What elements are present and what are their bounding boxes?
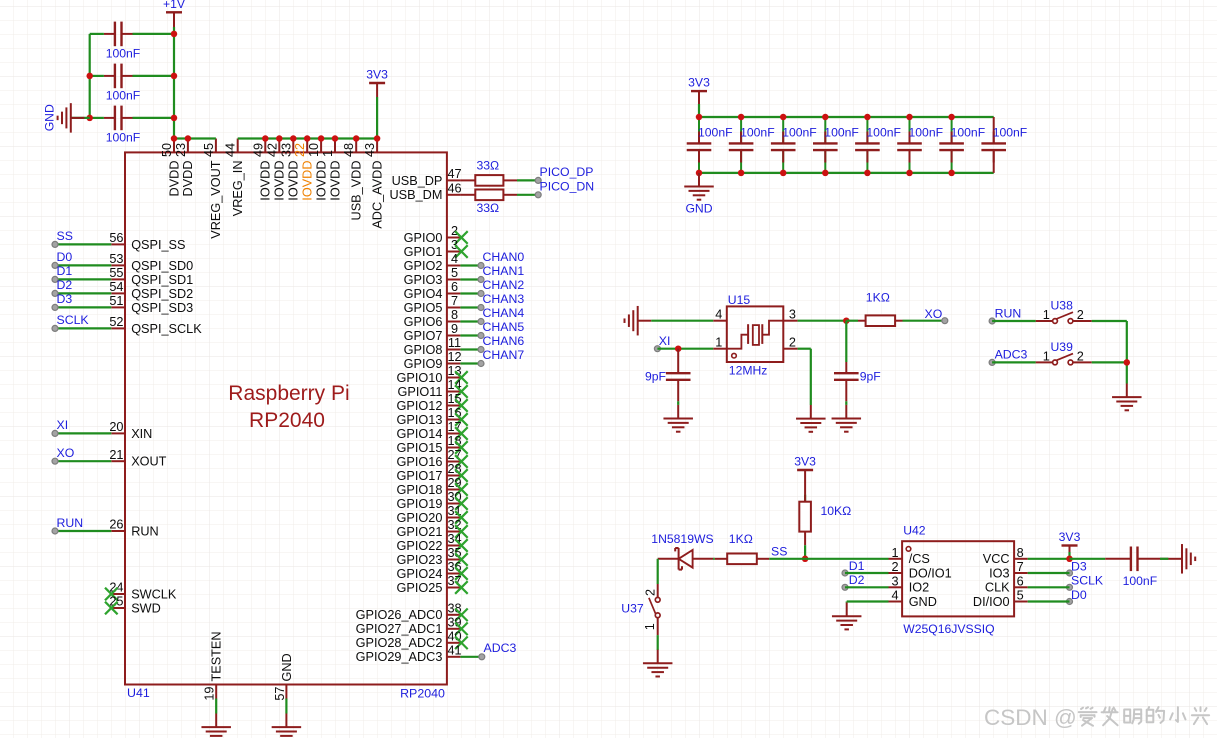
- svg-text:QSPI_SD1: QSPI_SD1: [131, 273, 193, 287]
- ground GND (top-left): [58, 103, 85, 132]
- svg-text:1KΩ: 1KΩ: [729, 532, 753, 546]
- capacitor C2 100nF (decoupling +1V): [104, 64, 133, 89]
- wire U39 pin2 to ground rail: [1092, 361, 1127, 363]
- U41 pin 52 QSPI_SCLK: [109, 315, 202, 336]
- wire CHAN4 from pin 8: [460, 320, 481, 322]
- no-connect on pin 31: [455, 511, 468, 524]
- ground right of 100nF (sideways): [1168, 544, 1195, 574]
- wire SCLK to U42 pin6: [1028, 586, 1070, 588]
- U41 pin 23 DVDD (top): [174, 139, 195, 197]
- svg-text:IOVDD: IOVDD: [273, 161, 287, 201]
- svg-text:D3: D3: [57, 292, 73, 306]
- svg-text:9pF: 9pF: [860, 370, 881, 384]
- U42 pin 5 DI/IO0: [973, 589, 1028, 609]
- svg-text:RUN: RUN: [57, 516, 84, 530]
- svg-text:GPIO25: GPIO25: [397, 581, 443, 595]
- U15 pin 1: [713, 336, 727, 350]
- svg-text:CSDN @: CSDN @: [984, 705, 1077, 730]
- svg-text:49: 49: [251, 143, 265, 157]
- junction cap 4 top: [822, 114, 829, 121]
- svg-text:GND: GND: [43, 104, 57, 131]
- wire SS node to U42 pin1: [805, 558, 888, 560]
- wire 1K to XO flag: [903, 320, 942, 322]
- U41 pin 42 IOVDD (top): [265, 139, 286, 201]
- svg-text:48: 48: [342, 143, 356, 157]
- svg-text:9pF: 9pF: [645, 370, 666, 384]
- net flag D0: [52, 250, 72, 268]
- wire 3V3 to cap bank top rail: [698, 104, 700, 117]
- U41 pin 18 GPIO15: [397, 434, 462, 455]
- junction top bus x=187.9: [185, 135, 192, 142]
- svg-text:USB_DM: USB_DM: [390, 188, 443, 202]
- svg-text:33Ω: 33Ω: [477, 201, 500, 215]
- U41 pin 6 GPIO4: [404, 280, 461, 301]
- svg-text:22: 22: [293, 143, 307, 157]
- U42 pin 1 /CS: [889, 546, 930, 566]
- svg-text:D2: D2: [57, 278, 73, 292]
- junction top bus x=279.3: [276, 135, 283, 142]
- svg-text:11: 11: [448, 336, 461, 350]
- svg-text:57: 57: [273, 687, 287, 701]
- svg-text:3V3: 3V3: [366, 68, 388, 82]
- svg-text:6: 6: [451, 280, 458, 294]
- svg-text:GPIO0: GPIO0: [404, 231, 443, 245]
- svg-text:GPIO14: GPIO14: [397, 427, 443, 441]
- ground below 9pF (XI): [663, 405, 693, 432]
- capacitor 9pF (XO): [834, 362, 859, 401]
- switch U39: [1036, 354, 1092, 365]
- svg-text:SWCLK: SWCLK: [131, 587, 177, 601]
- wire RUN to U41 pin 26: [55, 530, 111, 532]
- ground below U37: [643, 650, 673, 677]
- svg-text:CHAN1: CHAN1: [483, 264, 525, 278]
- U41 pin 32 GPIO21: [397, 518, 462, 539]
- svg-text:U42: U42: [903, 523, 926, 537]
- capacitor C1 100nF (decoupling +1V): [104, 22, 133, 47]
- wire to PICO_DP: [517, 179, 536, 181]
- junction top bus x=174.0: [171, 135, 178, 142]
- net flag D2 (U42 pin3): [842, 573, 865, 590]
- svg-text:100nF: 100nF: [698, 126, 733, 140]
- svg-text:6: 6: [1017, 574, 1024, 588]
- no-connect on pin 37: [455, 581, 468, 594]
- svg-text:55: 55: [109, 266, 123, 280]
- diode D 1N5819WS: [658, 548, 713, 570]
- svg-text:CHAN0: CHAN0: [483, 250, 525, 264]
- wire 3V3 to 10K: [804, 495, 806, 502]
- svg-text:GPIO4: GPIO4: [404, 287, 443, 301]
- no-connect on pin 25: [105, 602, 118, 615]
- junction right rail row2: [171, 73, 178, 80]
- junction cap 7 bottom: [948, 170, 955, 177]
- svg-text:SS: SS: [57, 229, 73, 243]
- wire VCC node to cap: [1070, 558, 1106, 560]
- svg-text:9: 9: [451, 322, 458, 336]
- wire cap bank left rail: [89, 34, 91, 118]
- U41 pin 8 GPIO6: [404, 308, 461, 329]
- junction cap 7 top: [948, 114, 955, 121]
- svg-text:100nF: 100nF: [866, 126, 901, 140]
- ground below pin 57: [272, 714, 302, 738]
- svg-text:SS: SS: [771, 545, 787, 559]
- net flag CHAN7: [478, 348, 524, 367]
- U41 pin 2 GPIO0: [404, 224, 461, 245]
- svg-text:8: 8: [1017, 546, 1024, 560]
- no-connect on pin 3: [455, 245, 468, 258]
- svg-text:GPIO7: GPIO7: [404, 329, 443, 343]
- net flag PICO_DN: [535, 180, 594, 198]
- net flag D2: [52, 278, 72, 296]
- junction cap 5 bottom: [864, 170, 871, 177]
- svg-text:QSPI_SD2: QSPI_SD2: [131, 287, 193, 301]
- resistor 33R USB_DN: [460, 190, 517, 201]
- svg-text:XI: XI: [57, 418, 69, 432]
- wire to PICO_DN: [517, 194, 536, 196]
- svg-text:GPIO26_ADC0: GPIO26_ADC0: [356, 608, 443, 622]
- svg-text:CLK: CLK: [985, 581, 1010, 595]
- svg-text:4: 4: [715, 308, 722, 322]
- U41 pin 1 IOVDD (top): [321, 139, 342, 201]
- wire D0 to U41 pin 53: [55, 264, 111, 266]
- net flag CHAN5: [478, 320, 524, 339]
- junction cap 1 top: [696, 114, 703, 121]
- capacitor 100nF #4 (3V3 decoupling): [813, 117, 838, 173]
- watermark CJK glyph 6: [1192, 707, 1209, 724]
- wire XI to U41 pin 20: [55, 432, 111, 434]
- wire cap bank bottom rail: [699, 172, 994, 174]
- wire U38 pin2 to ground rail: [1092, 320, 1127, 322]
- svg-text:12: 12: [447, 350, 461, 364]
- junction cap 6 bottom: [906, 170, 913, 177]
- svg-text:IO3: IO3: [989, 566, 1009, 580]
- svg-text:D1: D1: [57, 264, 73, 278]
- svg-text:3V3: 3V3: [794, 455, 816, 469]
- U41 pin 29 GPIO18: [397, 476, 462, 497]
- junction top bus x=293.3: [290, 135, 297, 142]
- junction left rail row2: [86, 73, 93, 80]
- wire pin 57 to ground: [285, 699, 287, 714]
- wire cap C2 right: [133, 75, 175, 77]
- net flag CHAN6: [478, 334, 524, 353]
- no-connect on pin 13: [455, 371, 468, 384]
- wire top bus segment 2 (pin 44 to 3V3): [238, 137, 377, 139]
- junction top bus x=356.2: [353, 135, 360, 142]
- svg-text:IOVDD: IOVDD: [287, 161, 301, 201]
- svg-text:GPIO28_ADC2: GPIO28_ADC2: [356, 636, 443, 650]
- wire CHAN0 from pin 4: [460, 264, 481, 266]
- svg-text:GPIO12: GPIO12: [397, 399, 443, 413]
- wire pin 19 to ground: [215, 699, 217, 714]
- svg-text:ADC3: ADC3: [995, 348, 1028, 362]
- wire D1 to U42 pin2: [845, 572, 889, 574]
- net flag RUN: [52, 516, 83, 534]
- wire D1 to U41 pin 55: [55, 278, 111, 280]
- svg-text:W25Q16JVSSIQ: W25Q16JVSSIQ: [903, 622, 994, 636]
- wire CHAN2 from pin 6: [460, 292, 481, 294]
- svg-text:2: 2: [789, 336, 796, 350]
- svg-text:10: 10: [307, 143, 321, 157]
- svg-text:100nF: 100nF: [106, 88, 141, 102]
- wire top bus segment 1 (+1V rail to pin 45): [174, 137, 216, 139]
- U41 pin 46 USB_DM: [390, 182, 462, 203]
- svg-text:1: 1: [715, 336, 722, 350]
- wire GND to cap bank: [71, 117, 90, 119]
- svg-text:GPIO22: GPIO22: [397, 539, 443, 553]
- svg-text:VREG_VOUT: VREG_VOUT: [209, 160, 223, 239]
- U41 pin 49 IOVDD (top): [251, 139, 272, 201]
- U41 pin 39 GPIO27_ADC1: [356, 616, 462, 637]
- svg-text:GPIO13: GPIO13: [397, 413, 443, 427]
- U41 pin 9 GPIO7: [404, 322, 461, 343]
- junction SS node: [802, 556, 809, 563]
- svg-text:RUN: RUN: [995, 306, 1022, 320]
- wire cap C1 left: [90, 33, 104, 35]
- svg-text:GPIO18: GPIO18: [397, 483, 443, 497]
- no-connect on pin 2: [455, 231, 468, 244]
- wire U37 pin1 to ground: [657, 635, 659, 650]
- wire CHAN3 from pin 7: [460, 306, 481, 308]
- no-connect on pin 34: [455, 539, 468, 552]
- wire U15 pin2 down: [810, 349, 812, 405]
- svg-text:100nF: 100nF: [782, 126, 817, 140]
- svg-text:GPIO15: GPIO15: [397, 441, 443, 455]
- watermark CJK glyph 3: [1124, 710, 1141, 724]
- wire +1V to cap bank: [173, 27, 175, 34]
- svg-text:2: 2: [892, 560, 899, 574]
- U42 pin 2 DO/IO1: [889, 560, 952, 580]
- no-connect on pin 28: [455, 469, 468, 482]
- U42 pin 3 IO2: [889, 574, 930, 594]
- svg-text:GPIO2: GPIO2: [404, 259, 443, 273]
- junction XI node: [675, 345, 682, 352]
- wire CHAN1 from pin 5: [460, 278, 481, 280]
- U41 pin 7 GPIO5: [404, 294, 461, 315]
- junction cap 5 top: [864, 114, 871, 121]
- svg-text:ADC_AVDD: ADC_AVDD: [370, 161, 384, 229]
- net flag XO (crystal): [925, 307, 948, 324]
- svg-text:5: 5: [1017, 589, 1024, 603]
- svg-text:IOVDD: IOVDD: [301, 161, 315, 201]
- U41 pin 45 VREG_VOUT (top): [202, 139, 223, 239]
- U41 pin 24 SWCLK: [109, 581, 176, 602]
- svg-text:SCLK: SCLK: [1071, 574, 1104, 588]
- svg-text:10KΩ: 10KΩ: [821, 504, 852, 518]
- svg-text:2: 2: [1077, 308, 1084, 322]
- svg-text:U37: U37: [621, 601, 644, 615]
- switch U38: [1036, 312, 1092, 323]
- svg-text:3V3: 3V3: [1059, 530, 1081, 544]
- wire 10K to SS node: [804, 545, 806, 559]
- U41 pin 28 GPIO17: [397, 462, 462, 483]
- U41 pin 51 QSPI_SD3: [109, 294, 193, 315]
- svg-text:PICO_DP: PICO_DP: [540, 165, 594, 179]
- U41 pin 56 QSPI_SS: [109, 231, 185, 252]
- svg-text:GPIO23: GPIO23: [397, 553, 443, 567]
- svg-text:100nF: 100nF: [993, 126, 1028, 140]
- ground at U15 pin 4: [625, 306, 652, 336]
- U41 pin 4 GPIO2: [404, 252, 461, 273]
- U41 pin 27 GPIO16: [397, 448, 462, 469]
- net flag PICO_DP: [535, 165, 593, 183]
- svg-text:D1: D1: [849, 559, 865, 573]
- U41 pin 11 GPIO8: [404, 336, 461, 357]
- power flag +1V: [166, 12, 182, 27]
- svg-text:DO/IO1: DO/IO1: [909, 566, 952, 580]
- svg-text:GPIO8: GPIO8: [404, 343, 443, 357]
- svg-text:GPIO3: GPIO3: [404, 273, 443, 287]
- wire U15 pin3 to XO node: [798, 320, 847, 322]
- junction top bus x=321.1: [318, 135, 325, 142]
- wire cap C2 left: [90, 75, 104, 77]
- ground below 9pF (XO): [832, 405, 862, 432]
- junction cap 4 bottom: [822, 170, 829, 177]
- capacitor 100nF #5 (3V3 decoupling): [855, 117, 880, 173]
- ground at U15 pin 2: [796, 405, 826, 432]
- wire D3 to U42 pin7: [1028, 572, 1070, 574]
- net flag D0 (U42 pin5): [1067, 588, 1087, 605]
- U41 pin 33 IOVDD (top): [279, 139, 300, 201]
- no-connect on pin 15: [455, 399, 468, 412]
- junction right rail row3: [171, 115, 178, 122]
- svg-text:3: 3: [451, 238, 458, 252]
- ground below cap bank: [684, 173, 714, 200]
- net flag ADC3 (to U39): [989, 348, 1027, 366]
- capacitor C3 100nF (decoupling +1V): [104, 106, 133, 131]
- U41 pin 17 GPIO14: [397, 420, 462, 441]
- wire U42 pin8 to VCC node: [1028, 558, 1070, 560]
- ground below pin 19: [201, 714, 231, 738]
- no-connect on pin 17: [455, 427, 468, 440]
- svg-text:GPIO27_ADC1: GPIO27_ADC1: [356, 622, 443, 636]
- wire SCLK to U41 pin 52: [55, 327, 111, 329]
- junction U39 pin2 / ground rail: [1124, 359, 1131, 366]
- svg-text:GPIO6: GPIO6: [404, 315, 443, 329]
- svg-text:TESTEN: TESTEN: [210, 631, 224, 681]
- svg-text:1: 1: [643, 623, 657, 630]
- wire ADC3 to U39: [992, 361, 1036, 363]
- wire RUN to U38: [992, 320, 1036, 322]
- net flag D3: [52, 292, 72, 310]
- U41 pin 54 QSPI_SD2: [109, 280, 193, 301]
- no-connect on pin 29: [455, 483, 468, 496]
- svg-text:GPIO20: GPIO20: [397, 511, 443, 525]
- svg-text:CHAN6: CHAN6: [483, 334, 525, 348]
- wire XO to U41 pin 21: [55, 460, 111, 462]
- svg-text:1: 1: [892, 546, 899, 560]
- net flag CHAN4: [478, 306, 524, 325]
- wire 9pF XO to ground: [845, 401, 847, 405]
- crystal oscillator U15 body: [727, 306, 784, 362]
- svg-text:100nF: 100nF: [909, 126, 944, 140]
- U42 pin 6 CLK: [985, 574, 1028, 594]
- junction cap 3 top: [780, 114, 787, 121]
- ground below switch rail: [1112, 384, 1142, 411]
- U41 pin 5 GPIO3: [404, 266, 461, 287]
- U41 pin 36 GPIO24: [397, 560, 462, 581]
- watermark CJK glyph 5: [1170, 707, 1185, 722]
- svg-text:12MHz: 12MHz: [729, 364, 768, 378]
- U15 pin 4: [713, 308, 727, 322]
- svg-text:IOVDD: IOVDD: [328, 161, 342, 201]
- svg-text:33Ω: 33Ω: [477, 159, 500, 173]
- resistor 10K pullup: [799, 495, 811, 546]
- wire diode to 1K: [713, 558, 715, 560]
- svg-text:U41: U41: [127, 686, 150, 700]
- svg-text:XOUT: XOUT: [131, 455, 166, 469]
- svg-text:VREG_IN: VREG_IN: [231, 161, 245, 217]
- svg-text:D2: D2: [849, 573, 865, 587]
- svg-text:GPIO10: GPIO10: [397, 371, 443, 385]
- svg-text:46: 46: [447, 182, 461, 196]
- svg-text:GND: GND: [909, 595, 937, 609]
- wire D2 to U42 pin3: [845, 586, 889, 588]
- no-connect on pin 24: [105, 588, 118, 601]
- svg-text:GPIO11: GPIO11: [397, 385, 442, 399]
- junction top bus x=265.3: [262, 135, 269, 142]
- svg-text:CHAN5: CHAN5: [483, 320, 525, 334]
- svg-text:QSPI_SD0: QSPI_SD0: [131, 259, 193, 273]
- wire switch ground rail vertical: [1126, 321, 1128, 384]
- U41 pin 37 GPIO25: [397, 574, 462, 595]
- svg-text:5: 5: [451, 266, 458, 280]
- svg-text:GPIO16: GPIO16: [397, 455, 443, 469]
- U42 pin 8 VCC: [983, 546, 1028, 566]
- svg-text:PICO_DN: PICO_DN: [540, 180, 595, 194]
- svg-text:CHAN3: CHAN3: [483, 292, 525, 306]
- svg-text:SWD: SWD: [131, 601, 161, 615]
- svg-text:/CS: /CS: [909, 552, 930, 566]
- junction top bus x=307.2: [304, 135, 311, 142]
- svg-text:3V3: 3V3: [688, 76, 710, 90]
- svg-text:33: 33: [279, 143, 293, 157]
- junction top bus at pin 43: [374, 135, 381, 142]
- no-connect on pin 16: [455, 413, 468, 426]
- power flag 3V3 (cap bank): [691, 91, 707, 104]
- svg-text:D0: D0: [1071, 588, 1087, 602]
- svg-text:XO: XO: [57, 446, 75, 460]
- svg-text:4: 4: [892, 589, 899, 603]
- ground at U42 pin4: [832, 603, 862, 630]
- svg-text:47: 47: [447, 167, 461, 181]
- svg-text:54: 54: [109, 280, 123, 294]
- svg-text:3: 3: [892, 574, 899, 588]
- svg-text:41: 41: [447, 644, 461, 658]
- svg-text:100nF: 100nF: [951, 126, 986, 140]
- U41 pin 31 GPIO20: [397, 504, 462, 525]
- wire CHAN5 from pin 9: [460, 334, 481, 336]
- svg-text:D3: D3: [1071, 559, 1087, 573]
- U41 pin 44 VREG_IN (top): [224, 139, 245, 217]
- svg-text:1N5819WS: 1N5819WS: [651, 532, 713, 546]
- wire cap bank right rail: [173, 34, 175, 139]
- wire cap bank top rail: [699, 116, 994, 118]
- net flag D1 (U42 pin2): [842, 559, 865, 576]
- svg-text:50: 50: [160, 143, 174, 157]
- svg-text:GPIO24: GPIO24: [397, 567, 443, 581]
- junction cap 6 top: [906, 114, 913, 121]
- wire diode corner down to U37: [657, 559, 659, 598]
- U41 pin 35 GPIO23: [397, 546, 462, 567]
- svg-text:45: 45: [202, 143, 216, 157]
- svg-text:100nF: 100nF: [1123, 574, 1158, 588]
- IC U41 RP2040 body: [125, 152, 447, 684]
- svg-text:100nF: 100nF: [106, 130, 141, 144]
- net flag D1: [52, 264, 72, 282]
- net flag SS: [52, 229, 73, 247]
- U41 pin 40 GPIO28_ADC2: [356, 630, 462, 651]
- svg-text:RP2040: RP2040: [249, 409, 325, 432]
- wire XI to U15 pin1: [657, 348, 713, 350]
